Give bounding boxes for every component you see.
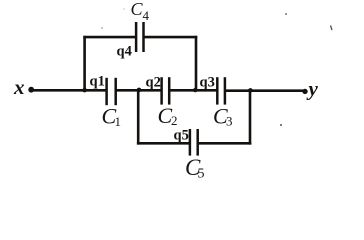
wire: top branch left vertical xyxy=(83,36,86,90)
wire: bottom branch horizontal right of C5 xyxy=(198,142,251,145)
node: y terminal dot xyxy=(302,89,307,94)
wire: bottom branch horizontal left of C5 xyxy=(137,142,189,145)
node: x terminal dot xyxy=(28,87,34,93)
wire: top branch horizontal right of C4 xyxy=(144,36,197,39)
capacitor C4 xyxy=(136,22,143,52)
svg-text:5: 5 xyxy=(198,167,205,182)
svg-text:4: 4 xyxy=(143,8,150,23)
svg-text:y: y xyxy=(306,77,319,101)
wire: C1 right plate to C2 left plate xyxy=(116,89,161,92)
svg-text:q5: q5 xyxy=(174,128,189,144)
wire: top branch horizontal left of C4 xyxy=(83,36,135,39)
capacitor C3 xyxy=(217,77,225,104)
node C: junction of top branch and middle wire (right) xyxy=(193,88,197,92)
svg-text:q2: q2 xyxy=(146,75,161,91)
wire: C3 right plate to y terminal xyxy=(225,89,303,92)
wire: x terminal to C1 left plate xyxy=(33,89,106,92)
wire: bottom branch right vertical xyxy=(249,90,252,144)
scan speck near top center xyxy=(101,27,103,29)
svg-text:x: x xyxy=(13,75,25,99)
wire: bottom branch left vertical xyxy=(137,90,140,145)
scan speck lower right xyxy=(280,124,282,126)
capacitor C1 xyxy=(107,78,116,105)
svg-text:q3: q3 xyxy=(200,75,215,91)
node A: junction of top branch and middle wire (left) xyxy=(82,88,87,93)
svg-text:q4: q4 xyxy=(117,44,132,60)
wire: top branch right vertical xyxy=(195,36,198,90)
capacitor C2 xyxy=(162,77,170,104)
svg-text:1: 1 xyxy=(115,114,122,129)
scan tick mark upper right xyxy=(331,26,333,31)
scan speck right of C4 xyxy=(285,13,287,15)
wire: C2 right plate to C3 left plate xyxy=(170,89,217,92)
svg-text:3: 3 xyxy=(226,114,233,129)
capacitor C5 xyxy=(190,129,198,156)
node D: junction of bottom branch and middle wire (right) xyxy=(248,88,253,93)
svg-text:2: 2 xyxy=(171,113,178,128)
node B: junction of bottom branch and middle wire (left) xyxy=(137,88,142,93)
svg-text:q1: q1 xyxy=(90,74,105,90)
